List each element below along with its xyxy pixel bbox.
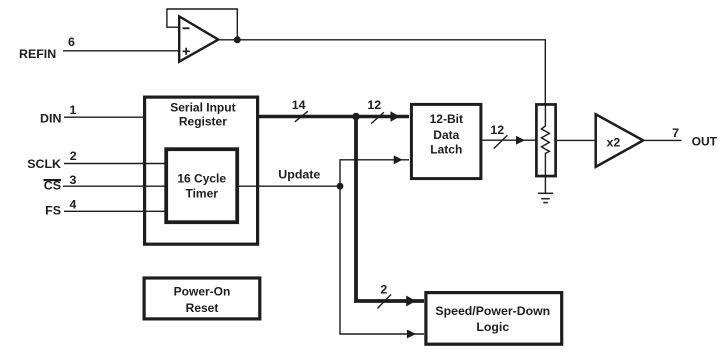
Serial Input Register box [145,97,258,244]
Speed/Power-Down Logic box [426,293,562,345]
bus 2-bit down to speed logic [356,117,424,302]
slash on 2 bus [378,295,392,309]
svg-text:x2: x2 [607,135,621,149]
CS overline [44,179,62,181]
svg-text:2: 2 [380,283,387,297]
wire op-amp feedback loop [167,9,237,40]
wire latch output to resistor string [482,139,536,141]
svg-text:Logic: Logic [476,320,509,334]
svg-text:Power-On: Power-On [174,284,231,298]
svg-text:14: 14 [292,98,306,112]
op-amp U1 (REFIN buffer) [179,16,218,61]
wire resistor string to x2 amp [557,139,596,141]
arrowhead update into speed logic [407,330,416,339]
wire SCLK [64,163,167,165]
bus 14-bit serial register output [259,115,409,118]
svg-text:REFIN: REFIN [19,47,56,61]
svg-text:Data: Data [433,128,459,142]
slash on latch output [494,135,508,148]
wire update up into data latch [340,160,409,186]
svg-text:Timer: Timer [185,187,218,201]
svg-text:Reset: Reset [186,301,219,315]
svg-text:DIN: DIN [40,111,61,125]
svg-text:1: 1 [69,103,76,117]
svg-text:FS: FS [45,203,61,217]
svg-text:Speed/Power-Down: Speed/Power-Down [435,304,550,318]
svg-text:Register: Register [179,114,227,128]
svg-text:12-Bit: 12-Bit [430,112,463,126]
slash on 14 bus [295,111,308,122]
ground [538,193,553,202]
wire update line from timer [239,185,340,187]
svg-text:2: 2 [70,149,77,163]
svg-text:12: 12 [367,98,381,112]
svg-text:Update: Update [278,168,320,182]
12-Bit Data Latch box [411,104,481,178]
wire update down to speed logic [340,186,424,334]
wire DIN [64,116,144,118]
arrowhead update into data latch [394,155,403,164]
resistor R (DAC resistor string) [541,104,549,193]
svg-text:Latch: Latch [430,142,462,156]
Power-On Reset box [144,278,260,319]
arrowhead bus into speed logic [406,296,416,307]
node update junction [337,183,344,190]
svg-text:OUT: OUT [692,134,718,148]
node op-amp output junction [234,36,241,43]
svg-text:SCLK: SCLK [27,157,61,171]
slash on 12 bus [371,112,384,123]
svg-text:16 Cycle: 16 Cycle [177,171,226,185]
svg-text:12: 12 [490,123,504,137]
wire REFIN input to op-amp + input [63,50,179,52]
x2 amplifier [596,114,644,167]
arrowhead into data latch (bus) [391,111,400,121]
svg-text:Serial Input: Serial Input [170,101,235,115]
arrowhead into resistor string [516,136,525,145]
svg-text:6: 6 [68,35,75,49]
svg-text:3: 3 [69,173,76,187]
svg-text:7: 7 [672,126,679,140]
node bus junction [352,113,360,121]
wire op-amp output to resistor string top [217,40,545,105]
resistor string box [536,104,555,176]
16 Cycle Timer box [166,149,237,222]
wire FS [64,210,167,212]
svg-text:4: 4 [69,198,76,212]
wire x2 output [643,139,681,141]
wire CS [63,185,167,187]
